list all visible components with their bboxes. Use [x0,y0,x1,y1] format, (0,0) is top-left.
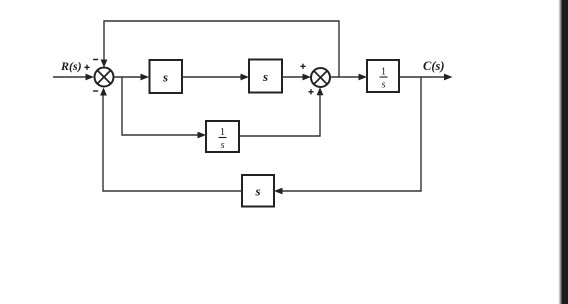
svg-text:1: 1 [220,127,225,138]
wire input R(s) [53,74,94,81]
wire feedback top from node A to S1 [101,21,339,77]
wire output C(s) with pickoff node B [399,74,453,81]
svg-text:s: s [220,140,224,151]
svg-text:s: s [381,80,385,91]
wire S1 to block G1 [113,74,149,81]
block G1 gain s [150,60,183,93]
wire G1 to G2 [182,74,249,81]
block H1 integrator 1/s [206,121,239,152]
wire H1 to S2 bottom [239,87,323,136]
wire H2 to S1 bottom [100,88,242,192]
svg-text:1: 1 [381,67,386,78]
svg-text:C(s): C(s) [423,59,445,73]
svg-text:R(s): R(s) [60,59,82,73]
sign - at summing junction 1 bottom [93,90,98,92]
sign - at summing junction 1 top [93,59,98,61]
summing junction S2 [311,68,330,87]
wire feedback bottom from node B to H2 [274,77,421,194]
wire S2 to block G3 with pickoff node A [330,74,367,81]
summing junction S1 [95,68,114,87]
wire branch from S1 output down to H1 [122,77,206,138]
sign + at summing junction 2 left [300,64,305,69]
sign + at summing junction 2 bottom [308,89,313,94]
sign + at summing junction 1 input [84,65,89,70]
svg-text:s: s [254,184,260,199]
scan edge bar [559,0,568,304]
wire G2 to S2 [282,74,311,81]
block G3 integrator 1/s [367,60,399,92]
svg-text:s: s [262,69,268,84]
block H2 gain s [242,175,274,207]
block G2 gain s [249,60,282,93]
svg-text:s: s [162,70,168,85]
